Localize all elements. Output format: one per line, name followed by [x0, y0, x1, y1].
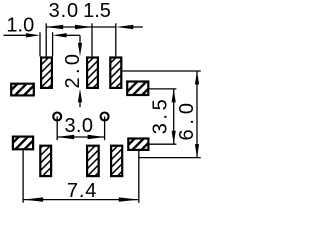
svg-text:7.4: 7.4 [67, 180, 97, 202]
dimension line 1.0 right arrow with tail [53, 33, 80, 37]
side pad top-right (hatched) [127, 82, 148, 96]
svg-text:2.0: 2.0 [62, 54, 84, 89]
dimension text 7.4 [67, 180, 97, 202]
pad P5 (bottom row middle, hatched) [87, 146, 99, 176]
pad P6 (bottom row right, hatched) [111, 146, 122, 176]
dimension text 1.5 [83, 0, 111, 22]
dimension line 1.5 with outside arrow [92, 25, 143, 29]
dimension text 2.0 (rotated) [62, 54, 84, 89]
extension line 6.0 bottom [139, 157, 201, 159]
dimension line 3.5 vertical with arrows [172, 89, 176, 144]
extension line pad P3 center [115, 23, 117, 56]
dimension 2.0 top arrow line [78, 35, 82, 56]
pad P1 (top row left, hatched) [41, 58, 52, 88]
extension line 7.4 left [22, 150, 24, 202]
extension line pad P1 right edge [52, 32, 54, 56]
dimension text 3.0 top [49, 0, 79, 22]
dimension line 1.0 left arrow [4, 33, 41, 37]
svg-text:3.0: 3.0 [49, 0, 79, 22]
extension line hole H1 [56, 117, 58, 141]
pad P3 (top row right, hatched) [110, 58, 121, 88]
side pad bottom-right (hatched) [128, 139, 148, 150]
hole H2 (right circle) [101, 113, 109, 121]
extension line from side pad bottom-right (3.5 bottom) [150, 143, 177, 145]
dimension line 7.4 with arrows [23, 197, 139, 201]
pad P2 (top row middle, hatched) [87, 58, 98, 88]
hole H1 (left circle) [53, 113, 61, 121]
dimension text 6.0 (rotated) [176, 103, 198, 141]
extension line from side pad top-right (3.5 top) [149, 88, 176, 90]
svg-text:3.5: 3.5 [150, 99, 172, 134]
svg-text:3.0: 3.0 [64, 115, 93, 137]
dimension 2.0 bottom arrow line [78, 89, 82, 107]
dimension line 3.0 top with arrows [46, 25, 92, 29]
dimension text 3.0 middle [64, 115, 93, 137]
extension line pad P1 left edge [39, 32, 41, 56]
dimension text 1.0 [6, 14, 34, 36]
svg-text:1.0: 1.0 [6, 14, 34, 36]
pad P4 (bottom row left, hatched) [40, 146, 51, 176]
extension line from pad P3 right (6.0 top) [122, 70, 200, 72]
svg-text:6.0: 6.0 [176, 103, 198, 141]
extension line pad P1 center [45, 23, 47, 56]
svg-text:1.5: 1.5 [83, 0, 111, 22]
extension line pad P2 center [91, 23, 93, 56]
side pad top-left (hatched) [11, 84, 34, 96]
extension line 7.4 right [138, 151, 140, 203]
extension line hole H2 [104, 117, 106, 141]
side pad bottom-left (hatched) [13, 137, 33, 150]
dimension line 6.0 vertical with arrows [195, 71, 199, 158]
dimension text 3.5 (rotated) [150, 99, 172, 134]
dimension line 3.0 middle with arrows [57, 135, 104, 139]
